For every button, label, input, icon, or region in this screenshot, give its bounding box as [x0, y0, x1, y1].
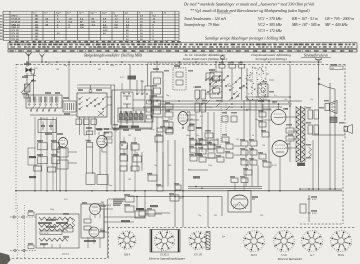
tube V6 UY1N — [89, 227, 104, 237]
frequency marks row — [9, 41, 181, 42]
dial scale band — [8, 43, 357, 52]
bias network — [125, 128, 202, 227]
wafer A drops — [80, 117, 96, 142]
wafer C contacts — [188, 56, 245, 131]
ground aerial — [40, 54, 45, 63]
main wires and borders — [8, 62, 355, 259]
decoupling resistors — [193, 87, 206, 118]
tube V2 UCH21 IF — [178, 111, 191, 128]
socket UCH21 — [150, 230, 180, 257]
tube V1a triode — [59, 138, 68, 148]
detector AF network — [190, 138, 233, 162]
IF/detector wiring — [190, 100, 237, 152]
volume pot wiring — [121, 196, 222, 227]
shielded coil unit — [173, 62, 186, 90]
socket S5-6 — [273, 231, 295, 258]
value labels — [48, 63, 313, 217]
band switch wafer A — [77, 85, 115, 125]
socket A-7 — [301, 231, 323, 258]
tube V1 UCH21 mixer — [97, 129, 107, 153]
AVC network — [34, 117, 68, 191]
socket EM4 — [118, 231, 137, 257]
measurement notes — [183, 2, 354, 41]
socket B8-5 — [243, 231, 265, 258]
antenna — [26, 53, 32, 67]
tube V4 UBL21 output — [272, 141, 291, 163]
voltage selector label — [113, 199, 125, 206]
heater dropper extra — [38, 222, 68, 248]
dial lamps — [300, 189, 342, 222]
IF transformer 1 — [151, 62, 163, 117]
padder capacitors — [219, 65, 247, 101]
scan artifact — [0, 253, 11, 264]
input band filter — [26, 95, 62, 133]
component labels texture — [22, 62, 344, 245]
antenna coupling network — [24, 62, 38, 100]
IF transformer 2 — [210, 62, 222, 98]
power section details — [46, 199, 108, 258]
gang capacitor — [246, 66, 292, 104]
tone network — [241, 141, 257, 175]
secondary network — [308, 110, 319, 189]
volume control wiring — [28, 148, 38, 178]
heater dropper — [36, 214, 79, 248]
output coupling — [259, 100, 294, 191]
magic eye EM4 — [228, 178, 256, 212]
mixer grid caps — [85, 131, 93, 147]
IF grid network — [163, 101, 173, 127]
RF coil — [63, 62, 76, 112]
socket B8-9 — [330, 231, 352, 258]
loudspeaker — [325, 101, 337, 123]
socket UY1N — [189, 231, 210, 256]
tuning arrow — [21, 79, 34, 93]
oscillator switch assembly — [99, 64, 153, 143]
mains switch / PU jack — [315, 58, 343, 135]
tube V3 UBL21 — [271, 104, 289, 125]
rectifier enclosure — [81, 204, 112, 238]
AF coupling caps — [120, 137, 142, 191]
output transformer — [296, 106, 305, 166]
interconnect wiring — [15, 61, 336, 232]
voltage measurement table — [0, 11, 179, 41]
wafer B trimmer row — [76, 114, 152, 130]
extension speaker — [344, 125, 353, 134]
schematic captions — [84, 53, 331, 62]
IF detail strokes — [151, 80, 240, 133]
switch wafer B — [205, 73, 243, 95]
mains leads — [10, 205, 36, 258]
tube V5 UY1N — [90, 201, 105, 218]
